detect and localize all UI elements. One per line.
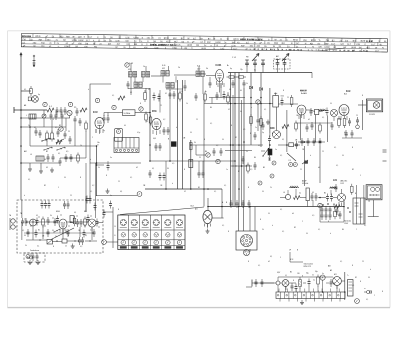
switch S2 xyxy=(261,148,269,157)
wire bus y206.5 xyxy=(208,206,344,208)
svg-text:0,1: 0,1 xyxy=(24,89,26,91)
tube V7 EM80 xyxy=(270,128,281,139)
resistor R36 xyxy=(260,116,263,128)
resistor R37 xyxy=(247,163,250,174)
resistor R6 xyxy=(145,112,148,123)
svg-text:b2: b2 xyxy=(308,119,310,121)
power strip extras xyxy=(278,283,339,293)
resistor R12 xyxy=(236,76,246,78)
capacitor C53 xyxy=(36,253,39,261)
wire x261 xyxy=(260,73,262,148)
wire am-fm switch row xyxy=(231,166,253,173)
svg-text:3b: 3b xyxy=(206,68,208,70)
wire to mixer xyxy=(21,90,31,92)
svg-text:B: B xyxy=(283,90,284,92)
antenna arrow xyxy=(20,53,22,58)
capacitor C65 xyxy=(321,206,324,214)
wire y104 right xyxy=(278,103,298,105)
tube V11 EL41 xyxy=(191,206,213,228)
capacitor C71 xyxy=(79,118,82,126)
tuning gang arrow xyxy=(252,54,259,62)
svg-text:0,1: 0,1 xyxy=(214,191,216,193)
resistor R14 xyxy=(315,109,319,114)
svg-text:AM: AM xyxy=(38,38,41,41)
variable capacitor CV2 xyxy=(253,60,257,67)
gang box dashed xyxy=(274,59,291,69)
svg-text:25: 25 xyxy=(356,115,358,117)
vertical bundle extra xyxy=(233,95,242,207)
resistor R11 xyxy=(227,76,237,78)
svg-text:T 25 0 B: T 25 0 B xyxy=(364,41,373,43)
svg-text:KW: KW xyxy=(144,47,147,49)
tube V2 xyxy=(152,111,161,130)
capacitor C72 xyxy=(65,154,68,162)
capacitor C16 xyxy=(169,91,172,99)
svg-text:6p: 6p xyxy=(230,68,232,70)
svg-text:50: 50 xyxy=(148,89,150,91)
svg-text:B2: B2 xyxy=(235,137,237,139)
wire y84 xyxy=(90,83,103,85)
switch S3 xyxy=(54,229,61,233)
svg-text:1M: 1M xyxy=(231,42,234,44)
resistor R21 xyxy=(190,140,193,152)
pin stubs pass xyxy=(63,83,347,290)
choke L4 xyxy=(290,186,299,188)
svg-text:B2: B2 xyxy=(294,227,296,229)
svg-text:4p: 4p xyxy=(56,111,58,113)
tick marks right edge xyxy=(383,150,387,161)
svg-text:AM: AM xyxy=(78,36,81,39)
resistor R39 xyxy=(319,123,322,134)
wire vertical x150 xyxy=(149,88,151,161)
label power xyxy=(304,263,314,268)
left labels dark xyxy=(24,111,91,161)
wire x327.3 xyxy=(326,116,328,143)
resistor R28 xyxy=(299,277,302,289)
svg-text:S 41: S 41 xyxy=(197,66,200,68)
svg-text:0,1: 0,1 xyxy=(258,265,260,267)
svg-text:25: 25 xyxy=(362,261,364,263)
tube V9 xyxy=(59,219,67,229)
capacitor C79 xyxy=(202,170,205,178)
wire y123 link xyxy=(296,122,332,124)
node 12 xyxy=(216,159,220,163)
svg-text:B: B xyxy=(115,226,116,228)
svg-text:0,5: 0,5 xyxy=(312,215,314,217)
svg-text:5: 5 xyxy=(58,187,59,189)
wire y195.5 xyxy=(96,195,137,197)
svg-text:40: 40 xyxy=(240,90,242,92)
svg-text:50: 50 xyxy=(52,230,54,232)
svg-text:05: 05 xyxy=(46,167,48,169)
svg-text:B 52: B 52 xyxy=(341,183,345,185)
transformer TR3 xyxy=(348,280,354,296)
svg-text:EL84: EL84 xyxy=(346,91,350,93)
svg-text:1k: 1k xyxy=(246,83,248,85)
capacitor C80 xyxy=(255,279,258,287)
svg-text:50: 50 xyxy=(312,275,314,277)
svg-text:E: E xyxy=(115,235,116,237)
wire y97.5 xyxy=(209,97,245,99)
wire input row xyxy=(14,107,47,113)
svg-text:02: 02 xyxy=(228,109,230,111)
wire y150.5 xyxy=(225,150,252,152)
variable capacitor CV4 xyxy=(276,60,280,67)
resistor R24 xyxy=(70,216,74,223)
svg-text:EF41: EF41 xyxy=(164,38,170,40)
ground xyxy=(106,189,110,194)
wire misc bottom xyxy=(290,252,303,262)
capacitor C49 xyxy=(76,219,79,227)
capacitor C8 xyxy=(57,129,60,137)
wire y146 xyxy=(30,145,97,147)
svg-text:EF41: EF41 xyxy=(293,40,299,42)
svg-text:B: B xyxy=(106,175,107,177)
wire box2 down xyxy=(368,200,379,217)
block Z3 xyxy=(62,239,67,243)
capacitor C69 xyxy=(308,279,311,287)
label dashed box 2 xyxy=(22,230,91,249)
resistor R1 xyxy=(30,86,33,96)
svg-text:B4: B4 xyxy=(210,107,212,109)
node 6 xyxy=(256,100,260,104)
svg-text:0,1: 0,1 xyxy=(58,153,60,155)
svg-text:25: 25 xyxy=(68,131,70,133)
capacitor C35 xyxy=(159,173,162,181)
tube V10 xyxy=(88,219,96,227)
wire mid-right extras xyxy=(196,74,270,137)
svg-text:50µ: 50µ xyxy=(306,273,309,275)
svg-text:0,1: 0,1 xyxy=(334,147,336,149)
capacitor C1 xyxy=(56,107,59,115)
wire left bus xyxy=(20,55,22,200)
svg-text:0,5: 0,5 xyxy=(243,129,245,131)
svg-text:0,1: 0,1 xyxy=(210,123,212,125)
wire xyxy=(131,77,220,95)
wire y189 xyxy=(145,188,222,190)
speaker box 2 xyxy=(366,185,382,200)
capacitor C44 xyxy=(86,196,92,204)
svg-text:Bu3: Bu3 xyxy=(191,206,194,208)
svg-text:1M: 1M xyxy=(153,41,156,43)
svg-text:b: b xyxy=(172,183,173,185)
capacitor C2 xyxy=(60,107,63,115)
capacitor C73 xyxy=(70,154,73,162)
coil L2 xyxy=(36,156,44,161)
capacitor C46 xyxy=(21,218,24,226)
connector xyxy=(364,288,372,294)
wire x344.8 xyxy=(344,272,346,300)
capacitor C62 xyxy=(326,194,329,202)
label tuner xyxy=(229,55,279,92)
node 2 xyxy=(139,107,143,111)
wire exits xyxy=(103,207,118,248)
svg-text:b4: b4 xyxy=(292,213,294,215)
capacitor C25 xyxy=(348,118,351,126)
svg-text:0,5: 0,5 xyxy=(120,191,122,193)
svg-text:EF41: EF41 xyxy=(35,36,41,38)
svg-text:12p: 12p xyxy=(240,69,243,71)
resistor R19 xyxy=(289,143,294,147)
ground xyxy=(71,244,75,249)
svg-text:0,5: 0,5 xyxy=(64,230,66,232)
svg-text:0,1: 0,1 xyxy=(90,191,92,193)
svg-text:5k: 5k xyxy=(246,151,248,153)
trimmer CT1 xyxy=(42,114,46,118)
wire x286.9 xyxy=(286,110,288,152)
svg-text:5k: 5k xyxy=(50,215,52,217)
svg-text:0,1: 0,1 xyxy=(34,127,36,129)
terminal strip xyxy=(276,292,345,302)
svg-text:50: 50 xyxy=(306,233,308,235)
svg-text:45: 45 xyxy=(312,192,314,194)
wire y145 right xyxy=(278,144,300,146)
ground xyxy=(206,229,210,234)
capacitor C83 xyxy=(96,219,99,227)
capacitor C45 xyxy=(94,203,97,211)
svg-text:B: B xyxy=(248,261,249,263)
capacitor C3 xyxy=(64,107,67,115)
diag mark xyxy=(302,160,308,164)
svg-text:FM: FM xyxy=(94,46,97,48)
svg-text:25: 25 xyxy=(70,195,72,197)
capacitor C18 xyxy=(216,92,219,100)
svg-text:10,7: 10,7 xyxy=(197,69,200,71)
svg-text:C 1-3: C 1-3 xyxy=(232,57,236,59)
wire x344 stub xyxy=(343,200,345,213)
resistor R15 xyxy=(282,125,289,129)
wire comps to strip xyxy=(278,280,337,292)
capacitor C70 xyxy=(74,116,77,124)
wire xyxy=(304,146,320,186)
svg-text:25: 25 xyxy=(65,246,67,248)
resistor R2 xyxy=(47,108,54,112)
wire right col xyxy=(320,208,344,222)
capacitor C28 xyxy=(307,138,310,146)
svg-text:25: 25 xyxy=(160,105,162,107)
svg-text:EF41: EF41 xyxy=(311,40,317,42)
svg-text:B: B xyxy=(80,177,81,179)
pilot lamp LA2 xyxy=(276,281,280,285)
svg-text:0,1: 0,1 xyxy=(258,145,260,147)
capacitor C14 xyxy=(163,127,166,135)
svg-text:B: B xyxy=(231,125,232,127)
capacitor C58 xyxy=(242,200,245,208)
capacitor C63 xyxy=(330,194,333,202)
svg-text:B: B xyxy=(248,187,249,189)
label AB2 xyxy=(328,265,331,268)
resistor R16 xyxy=(338,116,341,128)
scan page area xyxy=(8,31,391,308)
svg-text:B: B xyxy=(140,103,141,105)
svg-text:B2: B2 xyxy=(44,185,46,187)
svg-text:EF41: EF41 xyxy=(234,39,240,41)
capacitor C19 xyxy=(232,80,235,88)
resistor R10 xyxy=(204,92,207,103)
coil L1 xyxy=(29,114,36,119)
capacitor C64 xyxy=(335,184,338,192)
svg-text:b: b xyxy=(251,107,252,109)
svg-text:B: B xyxy=(362,95,363,97)
wire am verticals xyxy=(288,189,342,207)
svg-text:Bu5: Bu5 xyxy=(344,94,347,96)
tube V12 DL96 xyxy=(338,194,346,207)
pins tube V1 xyxy=(96,129,103,134)
wire stub xyxy=(30,163,41,169)
capacitor C32 xyxy=(295,141,298,149)
capacitor C42 xyxy=(63,201,66,209)
label chart left xyxy=(115,226,116,237)
capacitor C91 xyxy=(36,218,39,226)
capacitor C36 xyxy=(163,173,166,181)
svg-text:50: 50 xyxy=(330,103,332,105)
capacitor C33 xyxy=(155,143,158,151)
svg-text:4n: 4n xyxy=(110,195,112,197)
svg-text:0,1: 0,1 xyxy=(37,246,39,248)
wire vertical x177 xyxy=(177,80,179,189)
labels power xyxy=(270,256,349,277)
svg-text:B4: B4 xyxy=(205,151,207,153)
svg-text:0,1: 0,1 xyxy=(352,285,354,287)
svg-text:B2: B2 xyxy=(46,151,48,153)
svg-text:0,5: 0,5 xyxy=(172,163,174,165)
svg-text:25: 25 xyxy=(199,157,201,159)
node 19 xyxy=(206,153,210,157)
wire x363.9 xyxy=(363,185,365,224)
svg-text:1n: 1n xyxy=(275,149,277,151)
ground xyxy=(28,167,32,172)
DIN connector left xyxy=(9,214,17,230)
wire vertical x182 xyxy=(182,80,184,189)
svg-text:B: B xyxy=(352,147,353,149)
wire x190.8 xyxy=(190,140,192,189)
ground xyxy=(39,169,43,174)
labels dashed box xyxy=(20,211,87,252)
tube socket chart xyxy=(118,215,185,250)
block R20 xyxy=(171,142,176,147)
resistor R7 xyxy=(149,115,152,126)
svg-text:b: b xyxy=(90,159,91,161)
capacitor C81 xyxy=(261,279,264,287)
svg-text:0,1: 0,1 xyxy=(299,193,301,195)
svg-text:0,5: 0,5 xyxy=(74,212,76,214)
wire xyxy=(104,113,108,117)
node A xyxy=(59,127,63,131)
resistor R18 block xyxy=(268,149,272,155)
svg-text:0,1: 0,1 xyxy=(264,109,266,111)
wire x199 stub xyxy=(199,161,203,170)
svg-text:25: 25 xyxy=(181,91,183,93)
wire y145 xyxy=(196,144,263,146)
capacitor C90 xyxy=(331,122,334,130)
svg-text:4p: 4p xyxy=(38,94,40,96)
svg-text:B4: B4 xyxy=(254,157,256,159)
capacitor C41 xyxy=(48,201,51,209)
capacitor C23 xyxy=(326,108,329,116)
capacitor C77 xyxy=(223,92,226,100)
resistor R34 xyxy=(84,217,87,228)
node C xyxy=(95,98,99,102)
svg-text:0,1: 0,1 xyxy=(313,280,315,282)
svg-text:Tr: Tr xyxy=(213,39,215,41)
svg-text:EF80: EF80 xyxy=(152,110,157,112)
svg-text:0,1: 0,1 xyxy=(318,229,320,231)
labels output xyxy=(333,180,371,203)
capacitor C87 xyxy=(254,162,257,170)
svg-text:25: 25 xyxy=(196,119,198,121)
capacitor C51 xyxy=(78,237,84,245)
svg-text:Bu4A/B: Bu4A/B xyxy=(301,92,308,95)
svg-text:0,1: 0,1 xyxy=(364,225,366,227)
svg-text:0,1: 0,1 xyxy=(322,117,324,119)
pickup unit dashed box xyxy=(17,200,103,262)
svg-text:UKW: UKW xyxy=(201,48,206,50)
wire x356 caps xyxy=(356,185,358,198)
svg-text:0,1: 0,1 xyxy=(85,235,87,237)
svg-text:b: b xyxy=(272,225,273,227)
svg-text:0,2: 0,2 xyxy=(163,119,165,121)
svg-text:50: 50 xyxy=(368,277,370,279)
svg-text:GR: GR xyxy=(125,41,129,43)
capacitor C17 xyxy=(173,91,176,99)
svg-text:DL96: DL96 xyxy=(333,180,337,182)
capacitor C95 xyxy=(351,130,354,138)
capacitor C12 xyxy=(103,115,106,123)
svg-text:0,2: 0,2 xyxy=(216,145,218,147)
wire y161 extend xyxy=(216,160,236,162)
svg-text:5k: 5k xyxy=(262,229,264,231)
capacitor C88 xyxy=(306,124,309,132)
svg-text:452 kHz: 452 kHz xyxy=(302,183,308,185)
svg-text:B: B xyxy=(118,209,119,211)
svg-text:B: B xyxy=(228,231,229,233)
label AM-IF xyxy=(302,180,308,185)
parts table xyxy=(21,34,387,53)
oscillator block Z1 xyxy=(123,110,136,116)
tube labels dark xyxy=(93,65,350,182)
node 11 xyxy=(258,181,262,185)
svg-text:0,1: 0,1 xyxy=(280,209,282,211)
capacitor C6 xyxy=(55,112,58,120)
wire x44 drop xyxy=(43,110,45,116)
svg-text:Tr: Tr xyxy=(254,43,256,45)
tube V8 EL84 xyxy=(339,91,350,116)
svg-text:50: 50 xyxy=(167,168,169,170)
svg-text:25: 25 xyxy=(118,181,120,183)
svg-text:B2: B2 xyxy=(290,272,292,274)
switch S1b xyxy=(43,147,65,151)
svg-text:b: b xyxy=(24,195,25,197)
resistor R30 xyxy=(85,121,88,132)
resistor R26 xyxy=(351,184,354,195)
svg-text:b: b xyxy=(88,89,89,91)
ground xyxy=(300,300,304,305)
potentiometer P1 xyxy=(47,240,53,245)
capacitor C27 xyxy=(301,138,304,146)
svg-text:AM: AM xyxy=(184,47,187,50)
svg-text:2k: 2k xyxy=(55,236,57,238)
node 14 xyxy=(26,255,30,259)
labels mid xyxy=(110,138,207,194)
label A xyxy=(227,64,229,67)
capacitor C94 xyxy=(345,130,348,138)
diode D2 xyxy=(260,88,263,91)
svg-text:0,1: 0,1 xyxy=(152,168,154,170)
transistor Q1 xyxy=(67,110,72,118)
capacitor C84 xyxy=(213,148,216,156)
labels am row xyxy=(283,192,326,195)
label xyxy=(289,160,291,162)
